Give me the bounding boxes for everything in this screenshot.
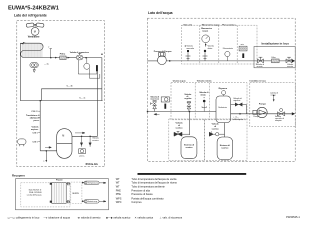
svg-text:Uscita acqua: Uscita acqua [173, 80, 187, 83]
stadium labels [82, 181, 106, 203]
svg-text:Lato del refrigerante: Lato del refrigerante [14, 13, 47, 17]
svg-text:SERPE: SERPE [72, 193, 79, 195]
svg-text:sicurezza: sicurezza [150, 99, 159, 101]
svg-text:Portata dell'acqua combinato: Portata dell'acqua combinato [131, 197, 164, 200]
svg-text:Lato dell'acqua: Lato dell'acqua [148, 11, 173, 15]
svg-text:Ventilatore: Ventilatore [28, 35, 40, 38]
oil box with circle [79, 149, 86, 154]
exchanger stubs [50, 183, 70, 203]
svg-text:acqua: acqua [202, 30, 209, 32]
flow arrow [68, 57, 70, 59]
row2 line [147, 111, 216, 113]
svg-text:WPC: WPC [116, 201, 122, 204]
lower-right tank [217, 137, 233, 160]
plate heat exchanger [52, 183, 66, 204]
coil inlet arrow [20, 42, 25, 44]
legend rows [116, 178, 178, 204]
svg-text:R04.0a-12a: R04.0a-12a [86, 163, 99, 166]
node dot [50, 57, 51, 58]
svg-text:riempim.: riempim. [275, 119, 283, 122]
LP switch oval [18, 139, 26, 146]
svg-text:Tubo di temperatura dell'acqua: Tubo di temperatura dell'acqua de uscita [131, 178, 177, 181]
expansion valve [76, 53, 83, 59]
svg-text:Filtro: Filtro [60, 53, 66, 56]
middle dashed rect [71, 182, 82, 203]
suction horizontal to compressor [40, 150, 57, 152]
svg-text:C B 1: C B 1 [32, 132, 38, 134]
row1 sub-box [181, 25, 257, 64]
svg-text:Valvola entrata: Valvola entrata [197, 80, 213, 83]
svg-text:◄— 4b: ◄— 4b [66, 84, 74, 87]
svg-text:sfiato: sfiato [200, 93, 206, 96]
svg-text:press.: press. [33, 120, 39, 122]
discharge riser V2 [97, 71, 99, 136]
terminal bar [242, 53, 244, 58]
svg-text:Tubo di temperatura ambiente: Tubo di temperatura ambiente [131, 185, 165, 188]
svg-text:arresto: arresto [257, 65, 263, 68]
sight glass drain [89, 68, 99, 78]
col1 air vent symbol [187, 50, 189, 52]
horizontal line y=100.6 [20, 100, 102, 102]
svg-text:Rigenera: Rigenera [219, 88, 228, 90]
pipe to lower tank [189, 112, 191, 136]
compressor [57, 129, 72, 159]
svg-text:WT: WT [116, 185, 120, 188]
svg-text:Sistema di: Sistema di [184, 144, 194, 147]
wire coil left downpipe [19, 43, 21, 100]
fan motor M [31, 28, 39, 36]
terminal box [239, 46, 247, 51]
filling valve [277, 109, 284, 116]
svg-text:scarico: scarico [212, 128, 220, 130]
svg-text:scarico: scarico [92, 140, 99, 142]
svg-text:Pressione di alta: Pressione di alta [131, 190, 150, 193]
svg-text:Pompa dell'acqua: Pompa dell'acqua [154, 51, 172, 53]
thick bar [138, 173, 247, 175]
svg-text:Installato in loco: Installato in loco [250, 80, 267, 83]
sensor tick above liquid line [50, 49, 52, 58]
svg-text:regolaz.: regolaz. [184, 98, 192, 100]
water pump 2 [253, 107, 267, 117]
lower-left tank [181, 137, 197, 159]
field filter [272, 59, 280, 63]
svg-text:WPS: WPS [116, 197, 122, 200]
svg-text:⊥ valv. di sicurezza: ⊥ valv. di sicurezza [160, 215, 183, 219]
inner dashed box [21, 183, 70, 207]
svg-text:C B J /: C B J / [31, 111, 38, 113]
gauge box row2 [161, 97, 169, 102]
safety valve [151, 101, 157, 112]
svg-text:Serbatoio: Serbatoio [218, 106, 227, 109]
svg-text:a: a [43, 161, 44, 163]
vertical V1 right [101, 58, 103, 101]
svg-text:Temperatura: Temperatura [88, 182, 98, 185]
svg-text:regolazi.: regolazi. [233, 100, 241, 102]
svg-text:dell'acqua a.: dell'acqua a. [233, 119, 244, 121]
svg-text:uscita dell'acqua: uscita dell'acqua [27, 194, 43, 197]
svg-text:Entrata acq.: Entrata acq. [88, 200, 98, 203]
horizontal line y=88.8 [41, 88, 102, 90]
drain branch arrow [45, 151, 47, 161]
shutoff valve 2 [286, 57, 292, 63]
fill point arrow [273, 95, 274, 96]
svg-text:Pompa: Pompa [259, 103, 267, 105]
filter (hatched) [60, 56, 66, 60]
svg-text:◄— 4c: ◄— 4c [79, 96, 86, 99]
svg-text:PHE: PHE [116, 190, 121, 193]
svg-text:M: M [62, 135, 64, 138]
svg-text:◆—◆ valvola scarico: ◆—◆ valvola scarico [106, 215, 131, 219]
shutoff valve 1 [258, 57, 264, 63]
svg-text:✕ valvola carica: ✕ valvola carica [135, 215, 154, 219]
buffer tank [216, 96, 231, 123]
svg-text:WT: WT [116, 182, 120, 185]
svg-text:◂▸ valvola di arresto: ◂▸ valvola di arresto [78, 215, 101, 219]
service port stubs [80, 137, 91, 147]
flow arrow [55, 57, 57, 59]
svg-text:scarico: scarico [221, 147, 229, 149]
tank outlet line [231, 113, 292, 115]
top circle [222, 91, 226, 95]
liquid line coil to filter [44, 57, 60, 59]
node [40, 100, 41, 101]
svg-text:Valv. aria: Valv. aria [183, 23, 193, 26]
svg-text:PW40525-1: PW40525-1 [286, 215, 300, 219]
svg-text:C B 1: C B 1 [32, 141, 38, 143]
svg-text:Valvola di espansione: Valvola di espansione [70, 52, 89, 54]
svg-text:Compres.: Compres. [131, 201, 142, 204]
sight glass circle [84, 63, 90, 69]
svg-text:Sistema di: Sistema di [220, 144, 230, 147]
tank down pipe [224, 123, 226, 137]
solid box [16, 179, 109, 210]
bottom symbol legend [8, 215, 183, 219]
row2 sub-box [171, 83, 295, 127]
svg-text:manuale: manuale [186, 48, 195, 50]
svg-text:Pomp.: Pomp. [253, 116, 259, 118]
outlet arrow at edge [292, 59, 295, 62]
node dot [85, 57, 86, 58]
condenser coil [21, 43, 44, 57]
svg-text:WT: WT [116, 178, 120, 181]
svg-text:PHE: PHE [116, 193, 121, 196]
wire expansion valve to right corner [83, 57, 102, 59]
svg-text:Flussostato: Flussostato [223, 47, 234, 50]
svg-text:Flussostato a.: Flussostato a. [222, 23, 236, 26]
lower dashed boxes [169, 119, 247, 160]
svg-text:—▸ tubazione di acqua: —▸ tubazione di acqua [44, 215, 71, 219]
col2 air vent symbol [204, 50, 206, 52]
svg-text:Pressione di bassa: Pressione di bassa [131, 193, 153, 196]
svg-text:scarico: scarico [185, 147, 193, 149]
installazione in loco box [254, 47, 295, 68]
svg-text:Installazione in loco: Installazione in loco [262, 42, 290, 46]
svg-text:Manometro acqua: Manometro acqua [202, 23, 221, 26]
svg-text:arresto: arresto [287, 65, 293, 68]
service bar (thick) [96, 65, 98, 71]
svg-text:aspiraz.: aspiraz. [31, 129, 39, 131]
suction drop pipe [39, 101, 41, 151]
water pump row1 [158, 53, 167, 65]
svg-text:▭—▭ collegamento in loco: ▭—▭ collegamento in loco [8, 215, 40, 219]
svg-text:EUWA*5-24KBZW1: EUWA*5-24KBZW1 [8, 6, 59, 12]
svg-text:Recupero: Recupero [12, 174, 25, 178]
discharge line [72, 135, 98, 137]
refrigerant side dashed box [17, 21, 105, 167]
svg-text:M: M [34, 29, 36, 33]
fan blades [26, 23, 44, 28]
equalizer loop from valve [78, 60, 97, 74]
svg-text:Piastre: Piastre [56, 179, 64, 182]
water line row1 [147, 60, 157, 62]
left arrow under line [154, 113, 160, 115]
svg-text:scarico: scarico [175, 127, 183, 129]
HP switch pill [30, 63, 38, 73]
svg-text:Filtro: Filtro [272, 56, 276, 59]
svg-text:press.: press. [79, 155, 85, 157]
col2 gauge [202, 35, 210, 43]
svg-text:Tubo di temperatura dell'acqua: Tubo di temperatura dell'acqua de ritorn… [131, 182, 177, 185]
wire filter to expansion valve [66, 57, 76, 59]
water side dashed box [147, 18, 295, 161]
